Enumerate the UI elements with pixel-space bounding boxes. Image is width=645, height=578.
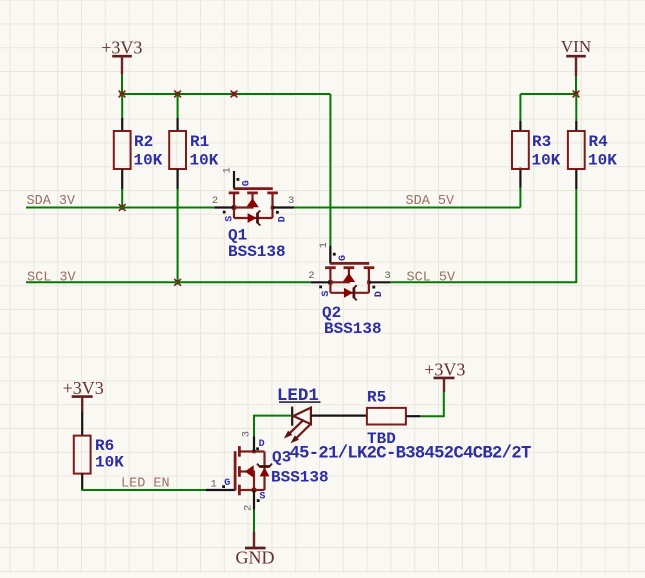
junction [174,279,181,286]
svg-text:1: 1 [222,167,234,173]
wire SCL 3V [26,281,311,283]
junction [573,91,580,98]
svg-text:R6: R6 [95,437,114,455]
svg-text:G: G [338,255,349,261]
power port +3V3 (bottom left) [63,378,104,412]
svg-text:VIN: VIN [561,37,591,56]
svg-text:1: 1 [318,242,330,248]
wire [253,416,255,437]
net label SCL 3V [27,270,77,285]
wire [575,189,577,283]
wire [253,415,291,417]
diode LED1 designator [277,386,321,406]
svg-text:2: 2 [308,270,314,282]
net label SDA 3V [27,194,77,209]
wire [253,416,255,417]
svg-text:3: 3 [241,431,253,437]
svg-text:S: S [259,492,265,503]
svg-text:45-21/LK2C-B38452C4CB2/2T: 45-21/LK2C-B38452C4CB2/2T [290,445,531,464]
net label LED EN [121,477,170,492]
resistor R5 pin 2 [406,415,421,417]
transistor Q2 value BSS138 [324,320,382,338]
wire SCL 5V [390,281,576,283]
svg-text:R3: R3 [532,133,551,151]
svg-text:TBD: TBD [367,430,396,448]
resistor R4 pin 1 [575,121,577,131]
svg-text:BSS138: BSS138 [228,243,286,261]
svg-text:S: S [224,216,235,222]
resistor R3 pin 1 [519,121,521,131]
transistor Q1 value BSS138 [228,243,286,261]
power port +3V3 (top left) [101,37,142,74]
resistor R4 [568,131,585,169]
junction [231,91,238,98]
resistor R6 pin 2 [81,474,83,490]
svg-text:D: D [259,439,265,450]
wire [443,392,445,417]
resistor R3 [512,131,529,169]
svg-text:G: G [224,478,230,489]
resistor R6 pin 1 [81,412,83,436]
svg-text:Q3: Q3 [272,448,291,466]
wire [253,510,255,532]
svg-text:3: 3 [288,195,294,207]
svg-text:2: 2 [212,195,218,207]
diode LED1 value [290,445,531,464]
svg-text:+3V3: +3V3 [63,378,104,398]
svg-text:1: 1 [211,478,217,490]
svg-text:D: D [374,291,385,297]
junction [174,91,181,98]
svg-text:SDA 5V: SDA 5V [406,194,456,209]
power port +3V3 (bottom right) [424,360,465,393]
wire LED EN [81,489,206,491]
svg-text:2: 2 [243,505,255,511]
resistor R6 designator [95,437,114,455]
wire [121,75,123,94]
wire SDA 5V [294,207,520,209]
svg-text:GND: GND [236,548,275,568]
resistor R1 [169,131,186,169]
transistor Q2 designator [322,304,341,322]
transistor Q3 value BSS138 [271,468,329,486]
resistor R6 value 10K [95,454,124,472]
wire [329,94,331,246]
net label SCL 5V [407,270,457,285]
wire [575,76,577,94]
resistor R2 [114,131,131,169]
svg-text:S: S [321,291,332,297]
resistor R3 designator [532,133,551,151]
svg-text:10K: 10K [95,454,124,472]
svg-text:SCL 5V: SCL 5V [407,270,457,285]
resistor R2 pin 1 [121,118,123,131]
svg-text:10K: 10K [532,151,561,169]
svg-text:BSS138: BSS138 [324,320,382,338]
svg-text:+3V3: +3V3 [101,37,142,57]
resistor R5 designator [367,389,386,407]
resistor R2 designator [134,133,153,151]
wire [519,188,521,208]
power port VIN [561,37,591,76]
wire SDA 3V [26,207,214,209]
wire [420,415,443,417]
svg-text:10K: 10K [190,151,219,169]
resistor R1 pin 2 [177,169,179,189]
wire [121,94,123,118]
resistor R4 pin 2 [575,169,577,189]
svg-text:Q1: Q1 [228,226,247,244]
svg-text:R5: R5 [367,389,386,407]
wire [177,189,179,282]
transistor Q2 gate pin [329,246,331,263]
wire [575,94,577,121]
svg-text:+3V3: +3V3 [424,360,465,380]
resistor R3 pin 2 [519,168,521,188]
svg-text:D: D [278,216,289,222]
resistor R2 value 10K [134,151,163,169]
resistor R1 value 10K [190,151,219,169]
resistor R5 [367,408,406,425]
svg-text:R2: R2 [134,133,153,151]
svg-text:3: 3 [384,270,390,282]
resistor R1 designator [190,133,209,151]
svg-text:R1: R1 [190,133,209,151]
svg-text:10K: 10K [588,151,617,169]
junction [119,204,126,211]
resistor R5 value TBD [367,430,396,448]
resistor R1 pin 1 [177,118,179,131]
svg-text:R4: R4 [589,133,609,151]
transistor Q3 designator [272,448,291,466]
wire [121,189,123,208]
resistor R6 [74,436,91,474]
wire [177,94,179,118]
resistor R4 value 10K [588,151,617,169]
power port GND [236,531,275,567]
transistor Q1 [212,167,294,225]
wire [311,415,367,417]
net label SDA 5V [406,194,456,209]
transistor Q2 [308,242,390,300]
resistor R3 value 10K [532,151,561,169]
wire VIN rail [520,93,576,95]
svg-text:G: G [242,180,253,186]
resistor R4 designator [589,133,609,151]
resistor R2 pin 2 [121,169,123,189]
transistor Q1 designator [228,226,247,244]
svg-text:10K: 10K [134,151,163,169]
junction [119,91,126,98]
diode LED1 [284,407,311,444]
svg-text:LED1: LED1 [277,386,319,406]
wire [519,94,521,121]
svg-text:LED EN: LED EN [121,477,170,492]
svg-text:BSS138: BSS138 [271,468,329,486]
wire +3V3 rail [121,93,330,95]
transistor Q3 [206,431,272,511]
